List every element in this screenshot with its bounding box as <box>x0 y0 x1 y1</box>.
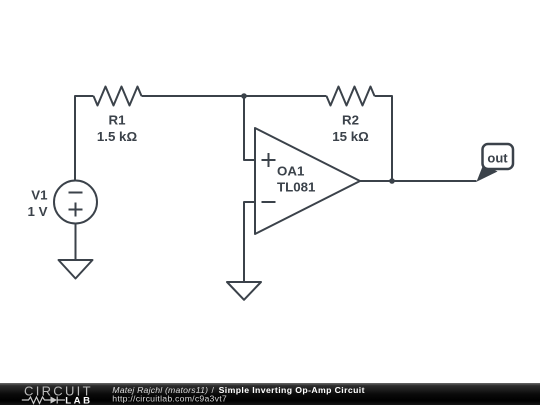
svg-text:LAB: LAB <box>65 395 93 405</box>
wire from op-amp output to out flag <box>360 180 477 182</box>
node output junction <box>389 178 395 184</box>
svg-text:R1: R1 <box>109 113 127 128</box>
svg-text:OA1: OA1 <box>277 164 305 179</box>
CircuitLab logo <box>22 384 93 405</box>
svg-text:V1: V1 <box>31 188 48 203</box>
wire from V1 top to R1 left <box>75 96 94 181</box>
ground under op-amp <box>227 282 261 300</box>
resistor R2 <box>327 87 375 145</box>
wire from V1 bottom to ground <box>75 224 77 261</box>
op-amp OA1 <box>255 128 360 234</box>
voltage source V1 <box>28 181 97 224</box>
wire from R1 right to R2 left <box>142 95 327 97</box>
wire from R2 right down to output node <box>375 96 393 181</box>
ground under V1 <box>59 260 93 279</box>
wire from junction down to op-amp + input <box>244 96 255 160</box>
node junction input <box>241 93 247 99</box>
svg-text:http://circuitlab.com/c9a3vt7: http://circuitlab.com/c9a3vt7 <box>112 394 227 404</box>
svg-text:TL081: TL081 <box>277 180 316 195</box>
svg-text:1 V: 1 V <box>28 204 48 219</box>
svg-text:out: out <box>487 151 508 166</box>
svg-text:1.5 kΩ: 1.5 kΩ <box>97 129 138 144</box>
net flag out <box>477 144 514 182</box>
svg-text:R2: R2 <box>342 113 359 128</box>
svg-text:15 kΩ: 15 kΩ <box>332 129 369 144</box>
wire from op-amp - input to ground <box>244 202 255 282</box>
footer bar <box>0 383 540 405</box>
resistor R1 <box>94 87 142 145</box>
